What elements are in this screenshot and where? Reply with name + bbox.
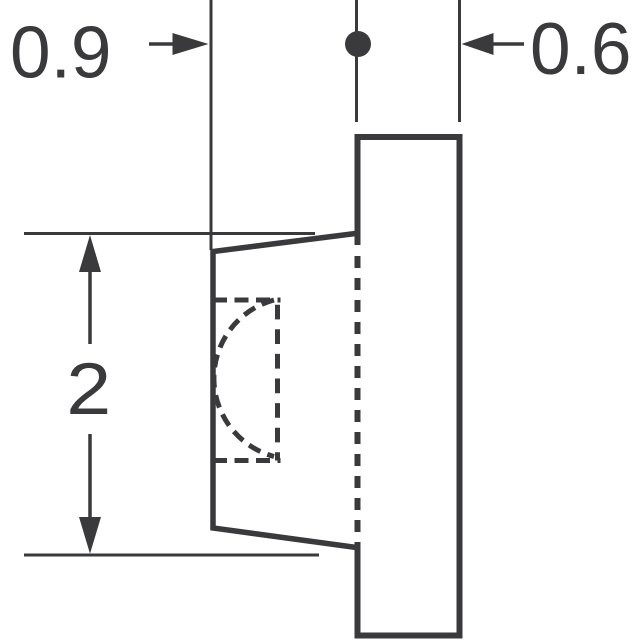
datum dot marker [345,31,371,57]
dimension line 2 lower arrow (points down) [79,434,101,554]
package body rectangle outline [358,137,460,636]
lens hidden outline: dashed dome arc [214,300,274,457]
extension line top (2 dim upper) [24,232,315,235]
arrow 0.6 (points left) [462,33,525,55]
svg-text:0.6: 0.6 [530,9,631,90]
svg-text:2: 2 [66,349,111,430]
extension line bottom (2 dim lower) [24,554,319,557]
svg-text:0.9: 0.9 [10,13,111,94]
extension line right (0.6 dim) [458,0,461,122]
lens hidden outline: top dashed [213,298,281,303]
arrow 0.9 (points right) [149,33,209,55]
lens hidden outline: bottom dashed [213,458,281,463]
extension line left (0.9 dim) [210,0,213,250]
extension line center (package left face) [355,0,358,122]
flange trapezoid outline [213,234,357,548]
hidden edge dotted line [355,256,361,549]
lens hidden outline: right dashed [275,305,280,461]
dimension line 2 upper arrow (points up) [79,235,101,344]
